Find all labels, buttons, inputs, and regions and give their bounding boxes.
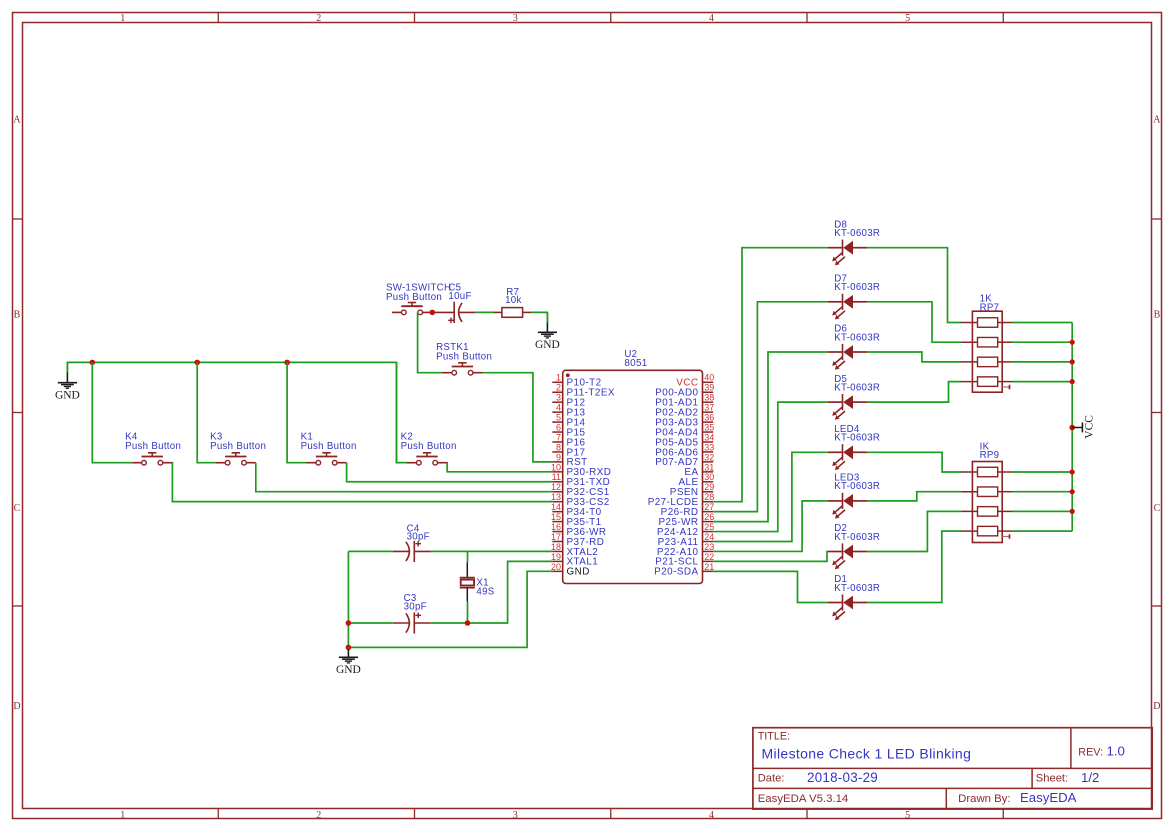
svg-text:GND: GND — [336, 664, 361, 676]
pin 15 P35-T1 — [551, 512, 602, 528]
wire C3/XTAL1 net — [348, 561, 552, 623]
svg-text:Push Button: Push Button — [386, 292, 442, 303]
svg-text:14: 14 — [551, 502, 561, 512]
LED LED3 KT-0603R — [828, 473, 881, 519]
svg-text:25: 25 — [704, 522, 714, 532]
svg-text:1: 1 — [556, 373, 561, 383]
svg-text:22: 22 — [704, 552, 714, 562]
svg-text:38: 38 — [704, 393, 714, 403]
pin 11 P31-TXD — [552, 472, 611, 488]
svg-text:TITLE:: TITLE: — [758, 730, 790, 742]
resistor pack RP9 IK — [961, 441, 1012, 542]
svg-text:30: 30 — [704, 472, 714, 482]
pin 4 P13 — [552, 403, 585, 419]
wire SW-1 to RSTK1 — [418, 312, 443, 372]
wire pin25 P24-A12 to D5 — [713, 402, 828, 531]
svg-text:EasyEDA V5.3.14: EasyEDA V5.3.14 — [758, 793, 849, 805]
pin 33 P06-AD6 — [655, 442, 714, 458]
wire C5 to R7 — [476, 311, 494, 313]
pin 40 VCC — [676, 373, 714, 389]
power VCC — [1069, 415, 1095, 439]
svg-text:5: 5 — [905, 13, 910, 24]
svg-text:3: 3 — [513, 13, 518, 24]
junction (K4 tap) — [90, 360, 96, 366]
IC U2 8051 — [563, 349, 703, 583]
pin 31 EA — [684, 462, 714, 478]
junction (crystal / C3) — [465, 620, 471, 626]
svg-text:8051: 8051 — [624, 358, 647, 369]
svg-text:10uF: 10uF — [448, 291, 471, 302]
pin 23 P22-A10 — [657, 542, 714, 558]
svg-text:15: 15 — [551, 512, 561, 522]
pin 22 P21-SCL — [655, 552, 714, 568]
svg-text:27: 27 — [704, 502, 714, 512]
svg-text:39: 39 — [704, 383, 714, 393]
svg-text:23: 23 — [704, 542, 714, 552]
junction (K1 tap) — [284, 360, 290, 366]
svg-text:2018-03-29: 2018-03-29 — [807, 770, 878, 785]
ground GND (button rail) — [55, 362, 80, 401]
svg-text:37: 37 — [704, 403, 714, 413]
ground GND (R7) — [535, 312, 560, 351]
junction (bus RP9.1) — [1070, 469, 1075, 474]
wire left rail (C4/C3/GND) — [347, 551, 349, 647]
wire pin21 P20-SDA to D1 — [713, 571, 828, 602]
svg-text:D: D — [1153, 701, 1160, 712]
pin 21 P20-SDA — [654, 562, 714, 578]
svg-text:34: 34 — [704, 432, 714, 442]
wire D7 to RP7 r2 — [867, 302, 961, 342]
LED D1 KT-0603R — [828, 574, 881, 620]
pin 37 P02-AD2 — [655, 403, 714, 419]
pin 20 GND — [551, 562, 590, 578]
wire D6 to RP7 r3 — [867, 352, 961, 362]
pin 36 P03-AD3 — [655, 413, 714, 429]
pin 13 P33-CS2 — [551, 492, 610, 508]
svg-text:13: 13 — [551, 492, 561, 502]
pin 28 P27-LCDE — [648, 492, 715, 508]
pin 19 XTAL1 — [551, 552, 598, 568]
svg-text:19: 19 — [551, 552, 561, 562]
svg-text:RP9: RP9 — [980, 450, 1000, 461]
wire D5 to RP7 r4 — [867, 382, 961, 403]
pin 9 RST — [552, 452, 587, 468]
push button K3 — [210, 431, 266, 465]
svg-text:Milestone Check 1 LED Blinking: Milestone Check 1 LED Blinking — [762, 746, 972, 762]
svg-text:2: 2 — [556, 383, 561, 393]
svg-text:KT-0603R: KT-0603R — [834, 282, 880, 293]
svg-text:KT-0603R: KT-0603R — [834, 532, 880, 543]
junction (bus RP7.4) — [1070, 379, 1075, 384]
wire crystal to XTAL2 net — [467, 551, 469, 562]
junction (bus RP7.3) — [1070, 359, 1075, 364]
svg-text:1: 1 — [120, 810, 125, 821]
title text — [758, 730, 790, 742]
wire LED4 to RP9 r1 — [867, 452, 961, 472]
pin 7 P16 — [552, 432, 585, 448]
pin 39 P00-AD0 — [655, 383, 714, 399]
wire pin20 GND net — [348, 571, 552, 647]
svg-text:GND: GND — [535, 339, 560, 351]
capacitor C4 30pF — [407, 523, 430, 542]
svg-text:KT-0603R: KT-0603R — [834, 332, 880, 343]
svg-text:6: 6 — [556, 422, 561, 432]
svg-text:33: 33 — [704, 442, 714, 452]
push button K4 — [125, 431, 181, 465]
pin 29 PSEN — [670, 482, 715, 498]
LED D5 KT-0603R — [828, 374, 881, 420]
wire LED3 to RP9 r2 — [867, 492, 961, 501]
svg-text:17: 17 — [551, 532, 561, 542]
svg-text:12: 12 — [551, 482, 561, 492]
junction (bus RP9.3) — [1070, 509, 1075, 514]
junction (SW-1 / C5) — [430, 310, 436, 316]
svg-text:8: 8 — [556, 442, 561, 452]
svg-text:35: 35 — [704, 422, 714, 432]
svg-text:1/2: 1/2 — [1081, 770, 1099, 785]
svg-text:KT-0603R: KT-0603R — [834, 481, 880, 492]
svg-text:4: 4 — [709, 810, 714, 821]
pin 1 P10-T2 — [552, 373, 601, 389]
svg-text:A: A — [1153, 114, 1161, 125]
svg-text:Push Button: Push Button — [210, 441, 266, 452]
svg-text:KT-0603R: KT-0603R — [834, 228, 880, 239]
svg-text:1.0: 1.0 — [1107, 744, 1125, 759]
push button RSTK1 — [436, 342, 492, 375]
resistor R7 10k — [493, 287, 531, 317]
svg-text:36: 36 — [704, 413, 714, 423]
wire K3 to pin12 P32-CS1 — [256, 463, 553, 492]
pin 6 P15 — [552, 422, 585, 438]
wire D2 to RP9 r3 — [867, 511, 961, 551]
wire (K4 left feed) — [92, 362, 132, 462]
junction (GND net) — [346, 645, 352, 651]
wire GND rail to buttons — [67, 362, 406, 462]
svg-text:30pF: 30pF — [407, 531, 430, 542]
wire K2 to pin10 P30-RXD — [447, 463, 552, 472]
capacitor C3 30pF — [404, 593, 427, 612]
wire (K2 left feed) — [397, 362, 408, 462]
pin 26 P25-WR — [658, 512, 714, 528]
junction (K3 tap) — [194, 360, 200, 366]
junction (bus RP9.2) — [1070, 489, 1075, 494]
pin 16 P36-WR — [551, 522, 607, 538]
LED D7 KT-0603R — [828, 274, 881, 320]
wire RSTK1 to pin9 RST — [482, 373, 552, 462]
pin 38 P01-AD1 — [655, 393, 714, 409]
svg-text:40: 40 — [704, 373, 714, 383]
svg-text:D: D — [13, 701, 20, 712]
svg-text:Push Button: Push Button — [436, 352, 492, 363]
wire pin23 P22-A10 to LED3 — [713, 501, 828, 552]
svg-text:5: 5 — [905, 810, 910, 821]
svg-text:REV:: REV: — [1078, 746, 1103, 758]
push button SW-1SWITCH — [386, 283, 451, 315]
svg-text:10k: 10k — [505, 295, 522, 306]
svg-text:20: 20 — [551, 562, 561, 572]
push button K1 — [301, 431, 357, 465]
wire pin26 P25-WR to D6 — [713, 352, 828, 522]
svg-text:P20-SDA: P20-SDA — [654, 567, 698, 578]
capacitor C5 10uF — [432, 283, 475, 324]
svg-text:C: C — [14, 503, 21, 514]
junction (bus RP7.2) — [1070, 340, 1075, 345]
svg-text:28: 28 — [704, 492, 714, 502]
svg-text:Push Button: Push Button — [301, 441, 357, 452]
pin 30 ALE — [678, 472, 714, 488]
pin 27 P26-RD — [661, 502, 715, 518]
resistor pack RP7 1K — [961, 294, 1012, 393]
svg-text:KT-0603R: KT-0603R — [834, 433, 880, 444]
wire (K3 left feed) — [197, 362, 216, 462]
LED D8 KT-0603R — [828, 219, 881, 265]
wire D1 to RP9 r4 — [867, 531, 961, 602]
pin 3 P12 — [552, 393, 585, 409]
wire (K1 left feed) — [287, 362, 306, 462]
svg-text:4: 4 — [556, 403, 561, 413]
svg-text:21: 21 — [704, 562, 714, 572]
pin 34 P05-AD5 — [655, 432, 714, 448]
svg-text:VCC: VCC — [1084, 415, 1096, 439]
wire pin28 P27-LCDE to D8 — [713, 248, 828, 502]
svg-text:2: 2 — [316, 13, 321, 24]
svg-text:Push Button: Push Button — [125, 441, 181, 452]
svg-text:29: 29 — [704, 482, 714, 492]
svg-text:18: 18 — [551, 542, 561, 552]
pin 2 P11-T2EX — [552, 383, 615, 399]
svg-text:GND: GND — [567, 567, 590, 578]
pin 18 XTAL2 — [551, 542, 598, 558]
svg-text:KT-0603R: KT-0603R — [834, 583, 880, 594]
svg-text:B: B — [1154, 309, 1161, 320]
svg-text:Push Button: Push Button — [401, 441, 457, 452]
svg-text:3: 3 — [556, 393, 561, 403]
svg-text:1: 1 — [120, 13, 125, 24]
svg-text:7: 7 — [556, 432, 561, 442]
svg-text:3: 3 — [513, 810, 518, 821]
pin 8 P17 — [552, 442, 585, 458]
wire K4 to pin13 P33-CS2 — [172, 463, 552, 502]
pin 35 P04-AD4 — [655, 422, 714, 438]
svg-text:49S: 49S — [476, 586, 494, 597]
svg-text:C: C — [1154, 503, 1161, 514]
svg-text:11: 11 — [552, 472, 561, 482]
pin 10 P30-RXD — [551, 462, 611, 478]
wire XTAL2 net — [348, 550, 552, 552]
svg-text:31: 31 — [704, 462, 714, 472]
wire RP outputs to VCC bus — [1012, 323, 1072, 532]
svg-text:24: 24 — [704, 532, 714, 542]
title block — [753, 728, 1152, 809]
pin 25 P24-A12 — [657, 522, 714, 538]
wire D8 to RP7 r1 — [867, 248, 961, 323]
wire pin22 P21-SCL to D2 — [713, 552, 828, 562]
svg-text:GND: GND — [55, 389, 80, 401]
svg-text:5: 5 — [556, 413, 561, 423]
svg-text:9: 9 — [556, 452, 561, 462]
pin 12 P32-CS1 — [551, 482, 610, 498]
wire VCC bus — [1071, 323, 1073, 532]
pin 32 P07-AD7 — [655, 452, 714, 468]
wire pin24 P23-A11 to LED4 — [713, 452, 828, 541]
LED D6 KT-0603R — [828, 324, 881, 370]
svg-text:32: 32 — [704, 452, 714, 462]
crystal X1 49S — [460, 562, 495, 601]
svg-text:EasyEDA: EasyEDA — [1020, 790, 1077, 805]
svg-text:Date:: Date: — [758, 773, 785, 785]
svg-text:16: 16 — [551, 522, 561, 532]
pin 24 P23-A11 — [658, 532, 715, 548]
pin 14 P34-T0 — [551, 502, 602, 518]
LED LED4 KT-0603R — [828, 424, 881, 470]
wire K1 to pin11 P31-TXD — [347, 463, 553, 482]
svg-text:Sheet:: Sheet: — [1036, 773, 1068, 785]
pin 17 P37-RD — [551, 532, 604, 548]
svg-text:26: 26 — [704, 512, 714, 522]
svg-text:Drawn By:: Drawn By: — [958, 793, 1011, 805]
wire R7 to GND — [531, 312, 547, 322]
junction (C3 left) — [346, 620, 352, 626]
wire pin27 P26-RD to D7 — [713, 302, 828, 512]
svg-text:2: 2 — [316, 810, 321, 821]
svg-text:B: B — [14, 309, 21, 320]
svg-text:30pF: 30pF — [404, 601, 427, 612]
svg-text:4: 4 — [709, 13, 714, 24]
svg-text:10: 10 — [551, 462, 561, 472]
svg-text:KT-0603R: KT-0603R — [834, 382, 880, 393]
pin 5 P14 — [552, 413, 585, 429]
ground GND (bottom) — [336, 647, 361, 676]
wire crystal to XTAL1 net — [467, 602, 469, 624]
LED D2 KT-0603R — [828, 523, 881, 569]
push button K2 — [401, 431, 457, 465]
svg-text:A: A — [13, 114, 21, 125]
